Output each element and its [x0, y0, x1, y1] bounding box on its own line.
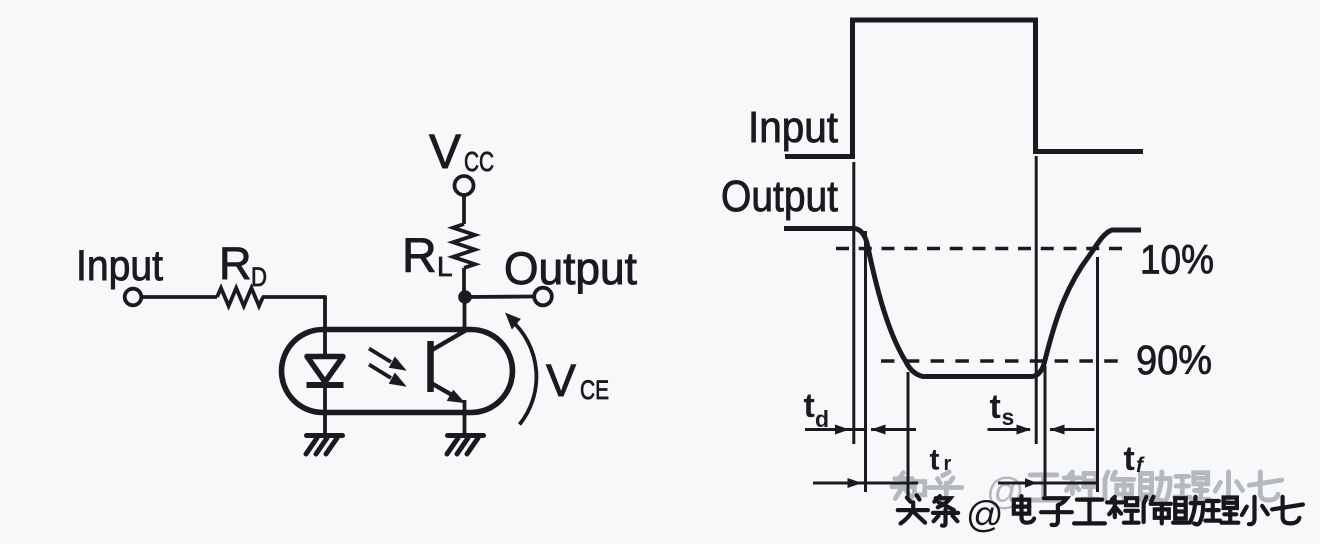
svg-text:90%: 90% [1136, 337, 1212, 383]
marker line v1 input rise [852, 162, 855, 444]
input terminal circle [125, 289, 142, 306]
wire corner down to LED anode [323, 295, 327, 356]
ts arrow pair [988, 425, 1095, 435]
svg-text:CC: CC [464, 146, 494, 177]
light arrow 2 [369, 365, 406, 387]
svg-text:CE: CE [580, 375, 609, 405]
marker line v2 output 10% fall [864, 231, 867, 492]
svg-text:Input: Input [748, 103, 838, 152]
svg-text:Output: Output [721, 172, 838, 221]
marker line v4 input fall [1035, 156, 1038, 444]
VCC terminal circle [455, 176, 474, 195]
svg-text:r: r [944, 453, 952, 475]
wire RD to corner [262, 295, 325, 299]
LED cathode bar [307, 382, 344, 388]
label RL [402, 230, 453, 283]
td arrow pair [805, 425, 916, 435]
wire input to R_D [142, 295, 218, 299]
svg-text:t: t [990, 388, 1001, 426]
wire LED cathode to ground [323, 387, 327, 433]
svg-text:R: R [402, 230, 437, 283]
svg-text:V: V [429, 126, 461, 179]
svg-text:L: L [437, 251, 453, 282]
svg-text:R: R [219, 238, 252, 289]
watermark black toutiao [898, 494, 1303, 535]
svg-text:D: D [251, 262, 267, 292]
label RD [219, 238, 267, 292]
svg-text:10%: 10% [1140, 237, 1214, 283]
wire VCC to RL [462, 195, 466, 224]
marker line v5 output 90% rise [1044, 366, 1047, 496]
svg-text:t: t [804, 387, 815, 425]
svg-text:Input: Input [76, 242, 163, 290]
svg-text:t: t [1124, 440, 1135, 478]
LED D1 triangle [307, 357, 343, 383]
ground G1 under LED [306, 436, 343, 455]
svg-text:@: @ [966, 494, 1004, 535]
label tr [930, 444, 952, 477]
label td [804, 387, 830, 432]
tr arrow row2 left [813, 478, 918, 488]
optocoupler body U1 [282, 330, 513, 413]
svg-text:Output: Output [504, 243, 637, 294]
label VCC [429, 126, 494, 179]
light arrow 1 [369, 349, 406, 371]
wire node down to collector [463, 297, 467, 331]
ground G2 under emitter [447, 436, 484, 455]
svg-text:t: t [930, 444, 940, 477]
transistor collector line [432, 331, 466, 351]
svg-text:s: s [1002, 404, 1015, 430]
label VCE [546, 355, 609, 406]
svg-text:d: d [815, 406, 829, 432]
resistor RL [453, 224, 475, 268]
tf arrow row2 right [998, 478, 1098, 488]
input pulse waveform [785, 20, 1143, 157]
wire emitter to ground [463, 400, 467, 433]
output waveform [784, 229, 1141, 377]
marker line v3 output 90% fall [907, 372, 910, 497]
VCE arc arrow [506, 314, 536, 425]
wire RL to node [462, 268, 466, 297]
svg-text:V: V [546, 355, 576, 406]
marker line v6 output 10% rise [1096, 257, 1099, 492]
watermark gray zhihu [892, 471, 1282, 513]
90% dashed level line [881, 359, 1118, 363]
label ts [990, 388, 1015, 430]
10% dashed level line [836, 247, 1122, 251]
transistor emitter line with arrow [432, 384, 464, 403]
transistor Q1 base bar [427, 341, 434, 392]
node junction dot [458, 290, 472, 304]
label tf [1124, 440, 1146, 478]
resistor RD [217, 288, 263, 306]
output terminal circle [534, 288, 552, 306]
wire node to output terminal [465, 295, 534, 299]
